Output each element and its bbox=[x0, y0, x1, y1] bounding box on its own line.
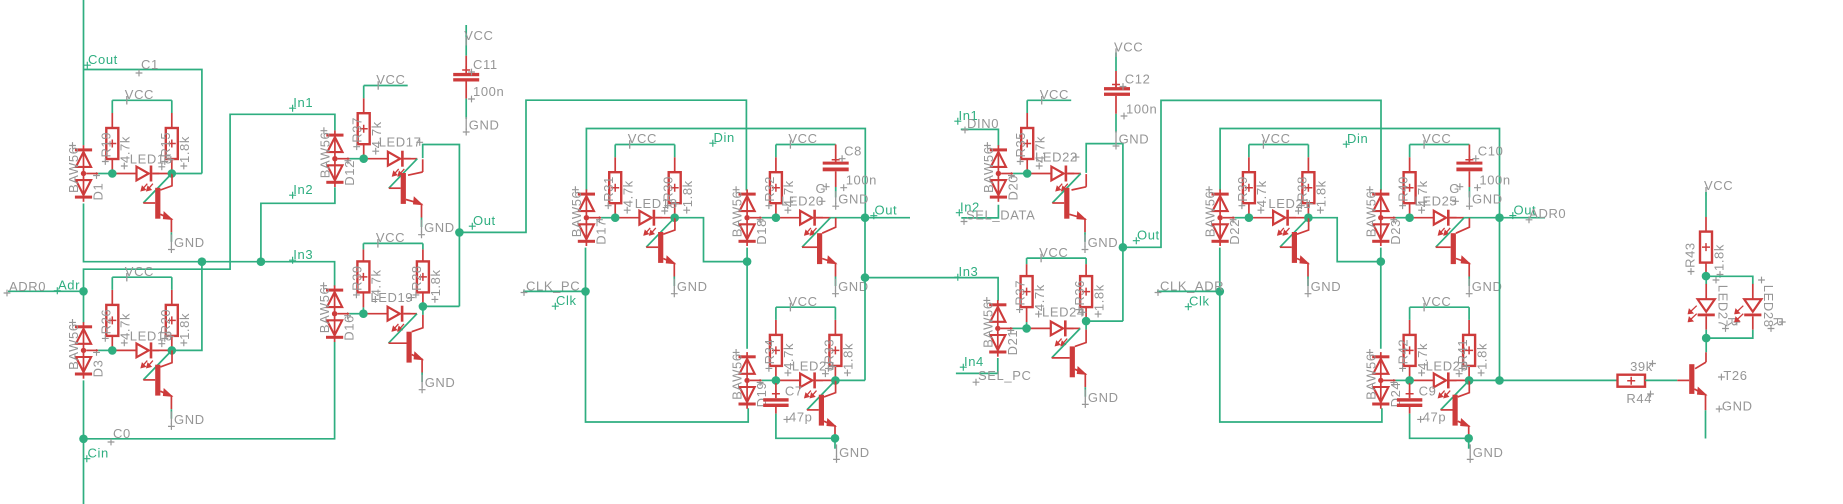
capacitor C8 100n bbox=[823, 145, 849, 188]
power VCC bbox=[1039, 245, 1068, 263]
wire bbox=[1085, 258, 1087, 264]
svg-text:GND: GND bbox=[174, 412, 205, 427]
wire G1 output bbox=[172, 173, 202, 175]
svg-text:C11: C11 bbox=[473, 57, 498, 72]
svg-text:1.8k: 1.8k bbox=[177, 136, 192, 163]
svg-text:D18: D18 bbox=[754, 219, 769, 245]
wire bbox=[1468, 277, 1470, 287]
svg-text:BAW56: BAW56 bbox=[569, 191, 584, 238]
wire bbox=[1705, 276, 1707, 284]
wire bbox=[1084, 387, 1086, 397]
power VCC bbox=[1422, 131, 1451, 149]
svg-text:C1: C1 bbox=[141, 57, 159, 72]
net label Clk bbox=[552, 293, 577, 310]
net label Cin bbox=[83, 446, 109, 463]
wire bbox=[1468, 307, 1470, 320]
pin bbox=[1248, 203, 1250, 218]
svg-text:100n: 100n bbox=[473, 84, 504, 99]
junction bbox=[108, 346, 117, 355]
svg-text:D20: D20 bbox=[1005, 175, 1020, 201]
power VCC bbox=[1261, 131, 1290, 149]
svg-text:1.8k: 1.8k bbox=[1712, 244, 1727, 271]
transistor T26 bbox=[1677, 352, 1706, 410]
wire collector bbox=[663, 218, 675, 235]
pin bbox=[1409, 203, 1411, 218]
junction bbox=[1082, 317, 1091, 326]
pin bbox=[111, 290, 113, 305]
wire collector bbox=[1075, 330, 1086, 347]
wire VCC rail bbox=[1410, 144, 1470, 146]
svg-text:D3: D3 bbox=[91, 360, 106, 378]
svg-text:GND: GND bbox=[1722, 398, 1753, 413]
wire VCC to C11 bbox=[465, 25, 467, 56]
resistor R40 4.7k bbox=[1404, 172, 1416, 203]
wire cap return bbox=[1410, 414, 1469, 439]
net label In4 bbox=[960, 354, 984, 371]
wire bbox=[835, 277, 837, 287]
dual diode D16 BAW56 bbox=[326, 285, 343, 342]
svg-text:LED24: LED24 bbox=[1042, 305, 1085, 320]
junction bbox=[168, 346, 177, 355]
resistor R39 4.7k bbox=[357, 261, 369, 292]
wire bbox=[422, 306, 424, 315]
svg-text:LED19: LED19 bbox=[370, 290, 413, 305]
wire rail bbox=[86, 173, 98, 175]
dual diode D21 BAW56 bbox=[989, 300, 1006, 357]
wire collector T26 bbox=[1705, 338, 1707, 352]
pin bbox=[775, 320, 777, 335]
wire rail bbox=[338, 158, 350, 160]
svg-text:C9: C9 bbox=[1419, 383, 1437, 398]
wire bbox=[831, 217, 866, 219]
wire G4 output bbox=[423, 305, 460, 307]
wire rail bbox=[98, 349, 112, 351]
svg-text:VCC: VCC bbox=[788, 131, 817, 146]
svg-text:R26: R26 bbox=[98, 309, 113, 335]
wire bbox=[404, 158, 418, 160]
wire bbox=[1307, 277, 1309, 287]
wire to R44 bbox=[1500, 379, 1618, 381]
pin bbox=[775, 203, 777, 218]
wire bbox=[1219, 248, 1221, 292]
svg-text:BAW56: BAW56 bbox=[1363, 191, 1378, 238]
wire bbox=[1468, 439, 1470, 449]
transistor bbox=[1052, 188, 1085, 233]
svg-text:D22: D22 bbox=[1227, 219, 1242, 245]
pin bbox=[1026, 159, 1028, 174]
wire Adr/In1 link bbox=[84, 114, 335, 291]
wire Out stub cluster5 bbox=[1500, 217, 1546, 219]
wire rail bbox=[1396, 217, 1410, 219]
pin bbox=[1468, 366, 1470, 381]
wire rail bbox=[750, 217, 762, 219]
pin bbox=[363, 144, 365, 159]
dual diode D19 BAW56 bbox=[739, 352, 756, 409]
pin bbox=[1085, 264, 1087, 276]
resistor bbox=[1700, 232, 1712, 263]
junction bbox=[1304, 213, 1313, 222]
svg-text:1.8k: 1.8k bbox=[680, 180, 695, 207]
wire bbox=[171, 100, 173, 113]
junction bbox=[1023, 169, 1032, 178]
wire collector riser bbox=[1085, 174, 1087, 187]
LED LED17 bbox=[364, 151, 411, 176]
wire feedback Out to D22 top bbox=[1220, 129, 1499, 218]
wire collector bbox=[822, 218, 836, 234]
svg-text:SEL_DATA: SEL_DATA bbox=[966, 208, 1035, 223]
wire rail bbox=[1396, 379, 1410, 381]
wire bbox=[775, 307, 777, 320]
wire collector bbox=[1297, 218, 1309, 235]
svg-text:VCC: VCC bbox=[1039, 245, 1068, 260]
svg-text:R42: R42 bbox=[1396, 339, 1411, 365]
wire G5 output bbox=[675, 218, 747, 262]
power VCC bbox=[788, 294, 817, 312]
pin bbox=[111, 336, 113, 351]
wire collector bbox=[160, 350, 172, 367]
power VCC bbox=[376, 230, 405, 248]
junction bbox=[359, 309, 368, 318]
wire base link bbox=[802, 218, 831, 248]
junction bbox=[108, 169, 117, 178]
wire bbox=[1645, 379, 1677, 381]
svg-text:GND: GND bbox=[838, 192, 869, 207]
junction bbox=[257, 257, 266, 266]
junction bbox=[359, 154, 368, 163]
junction bbox=[1702, 334, 1711, 343]
svg-text:BAW56: BAW56 bbox=[66, 146, 81, 193]
wire bbox=[363, 86, 365, 99]
wire VCC rail bbox=[615, 144, 675, 146]
junction bbox=[772, 376, 781, 385]
junction bbox=[861, 273, 870, 282]
LED LED22 bbox=[1027, 166, 1074, 191]
wire rail bbox=[1013, 327, 1027, 329]
svg-text:VCC: VCC bbox=[1040, 87, 1069, 102]
wire cluster3 out column bbox=[864, 218, 866, 381]
wire bbox=[1026, 100, 1028, 113]
junction bbox=[743, 257, 752, 266]
wire base link bbox=[389, 314, 418, 344]
wire net Cout branch bbox=[84, 70, 202, 174]
pin bbox=[422, 292, 424, 306]
svg-text:C7: C7 bbox=[785, 383, 803, 398]
wire bbox=[422, 243, 424, 249]
svg-text:GND: GND bbox=[839, 445, 870, 460]
wire net Cout top bbox=[83, 0, 85, 145]
svg-text:VCC: VCC bbox=[125, 264, 154, 279]
wire feedback Out to D17 top bbox=[586, 129, 865, 218]
ground bbox=[832, 279, 869, 298]
wire rail bbox=[1235, 217, 1249, 219]
wire rail bbox=[1001, 327, 1013, 329]
wire rail bbox=[762, 379, 776, 381]
junction bbox=[1245, 213, 1254, 222]
wire Out to Din bbox=[459, 100, 746, 232]
svg-text:R34: R34 bbox=[762, 339, 777, 365]
transistor bbox=[1441, 395, 1470, 440]
svg-text:R35: R35 bbox=[1013, 132, 1028, 158]
wire collector riser bbox=[422, 159, 424, 172]
svg-text:R32: R32 bbox=[762, 176, 777, 202]
wire G7 output bbox=[835, 379, 865, 381]
LED LED16 bbox=[112, 342, 159, 367]
net label Din bbox=[1343, 131, 1369, 148]
svg-text:CLK_ADR: CLK_ADR bbox=[1160, 279, 1224, 294]
svg-text:In4: In4 bbox=[964, 354, 984, 369]
ground bbox=[1466, 191, 1503, 210]
wire rail bbox=[750, 379, 762, 381]
wire bbox=[1289, 217, 1309, 219]
svg-text:Cin: Cin bbox=[88, 446, 109, 461]
svg-text:BAW56: BAW56 bbox=[730, 191, 745, 238]
junction bbox=[1495, 213, 1504, 222]
svg-text:Out: Out bbox=[875, 203, 898, 218]
svg-text:C8: C8 bbox=[844, 143, 862, 158]
svg-text:D24: D24 bbox=[1388, 382, 1403, 408]
svg-text:R37: R37 bbox=[350, 117, 365, 143]
dual diode D20 BAW56 bbox=[990, 145, 1007, 202]
wire In3 to cluster4 bbox=[865, 278, 998, 301]
pin bbox=[834, 320, 836, 335]
wire bbox=[1248, 145, 1250, 158]
svg-text:GND: GND bbox=[1088, 390, 1119, 405]
resistor R15 1.8k bbox=[166, 128, 178, 159]
wire C0/Cin bbox=[83, 380, 85, 504]
svg-text:D23: D23 bbox=[1388, 219, 1403, 245]
svg-text:4.7k: 4.7k bbox=[1254, 180, 1269, 207]
wire rail bbox=[337, 313, 349, 315]
pin bbox=[1026, 307, 1028, 322]
svg-text:R40: R40 bbox=[1396, 176, 1411, 202]
svg-text:C10: C10 bbox=[1478, 143, 1504, 158]
wire emitter bbox=[1705, 410, 1707, 438]
svg-text:ADR0: ADR0 bbox=[9, 279, 46, 294]
svg-text:C0: C0 bbox=[113, 426, 131, 441]
wire Out to cluster5 Din bbox=[1123, 100, 1381, 247]
dual diode D12 BAW56 bbox=[326, 130, 343, 187]
wire rail bbox=[1013, 173, 1027, 175]
wire bbox=[1026, 258, 1028, 264]
svg-text:R31: R31 bbox=[601, 176, 616, 202]
ground bbox=[418, 220, 455, 239]
svg-text:BAW56: BAW56 bbox=[730, 353, 745, 400]
transistor bbox=[1280, 232, 1309, 277]
wire bbox=[834, 307, 836, 320]
junction bbox=[1464, 434, 1473, 443]
ground bbox=[168, 411, 205, 430]
junction bbox=[198, 257, 207, 266]
wire CLK_ADR lower bbox=[1220, 291, 1382, 422]
pin bbox=[775, 366, 777, 381]
wire bbox=[1067, 327, 1081, 329]
junction bbox=[831, 434, 840, 443]
svg-text:Clk: Clk bbox=[556, 293, 577, 308]
wire rail bbox=[589, 217, 601, 219]
pin bbox=[1409, 320, 1411, 335]
junction bbox=[419, 302, 428, 311]
dual diode D17 BAW56 bbox=[578, 189, 595, 246]
wire G12 output bbox=[1469, 379, 1499, 381]
svg-text:BAW56: BAW56 bbox=[980, 301, 995, 348]
power VCC bbox=[125, 264, 154, 282]
svg-text:LED17: LED17 bbox=[379, 135, 422, 150]
wire bbox=[1409, 307, 1411, 320]
pin bbox=[1026, 264, 1028, 276]
power VCC bbox=[1704, 178, 1733, 196]
pin bbox=[674, 157, 676, 172]
svg-text:1.8k: 1.8k bbox=[841, 343, 856, 370]
svg-text:GND: GND bbox=[677, 279, 708, 294]
wire bbox=[83, 291, 85, 322]
wire base link bbox=[1436, 218, 1465, 248]
wire bbox=[1706, 330, 1753, 338]
wire collector bbox=[160, 174, 172, 191]
pin bbox=[1307, 157, 1309, 172]
svg-text:GND: GND bbox=[425, 375, 456, 390]
svg-text:In1: In1 bbox=[293, 95, 313, 110]
ground bbox=[1082, 235, 1119, 254]
junction bbox=[1405, 376, 1414, 385]
pin bbox=[1705, 217, 1707, 232]
wire collector bbox=[408, 172, 423, 175]
ground bbox=[1113, 131, 1150, 150]
svg-text:VCC: VCC bbox=[1114, 39, 1143, 54]
junction bbox=[1022, 324, 1031, 333]
junction bbox=[1465, 376, 1474, 385]
junction bbox=[831, 376, 840, 385]
pin bbox=[1409, 157, 1411, 172]
dual diode D3 BAW56 bbox=[75, 322, 92, 379]
junction bbox=[1405, 213, 1414, 222]
svg-text:Cout: Cout bbox=[88, 52, 118, 67]
wire bbox=[673, 277, 675, 287]
wire rail bbox=[1384, 379, 1396, 381]
svg-text:BAW56: BAW56 bbox=[66, 323, 81, 370]
wire rail bbox=[601, 217, 615, 219]
svg-text:LED23: LED23 bbox=[792, 359, 835, 374]
LED LED26 bbox=[1410, 372, 1457, 397]
wire VCC rail bbox=[112, 276, 172, 278]
junction bbox=[1702, 272, 1711, 281]
LED LED19 bbox=[363, 306, 410, 331]
svg-text:GND: GND bbox=[1472, 279, 1503, 294]
svg-text:BAW56: BAW56 bbox=[981, 146, 996, 193]
resistor R37 4.7k bbox=[1021, 276, 1033, 307]
ground bbox=[1467, 444, 1504, 463]
svg-text:1.8k: 1.8k bbox=[1091, 284, 1106, 311]
svg-text:G: G bbox=[816, 181, 827, 196]
ground bbox=[463, 117, 500, 136]
pin bbox=[1085, 307, 1087, 321]
power VCC bbox=[628, 131, 657, 149]
wire bbox=[1450, 217, 1465, 219]
wire cap return bbox=[776, 414, 835, 439]
ground bbox=[1305, 279, 1342, 298]
pin bbox=[422, 249, 424, 261]
power VCC bbox=[125, 87, 154, 105]
wire rail bbox=[1001, 173, 1013, 175]
wire rail bbox=[1223, 217, 1235, 219]
wire base link bbox=[1280, 218, 1309, 248]
pin bbox=[834, 366, 836, 381]
junction bbox=[1377, 257, 1386, 266]
wire bbox=[403, 313, 417, 315]
wire CLK_ADR bbox=[1157, 290, 1220, 292]
resistor R31 4.7k bbox=[609, 172, 621, 203]
svg-text:1.8k: 1.8k bbox=[177, 313, 192, 340]
svg-text:VCC: VCC bbox=[376, 72, 405, 87]
junction bbox=[581, 287, 590, 296]
ground bbox=[419, 375, 456, 394]
wire VCC rail bbox=[363, 242, 423, 244]
wire VCC to C12 bbox=[1115, 53, 1117, 72]
wire collector bbox=[1456, 218, 1470, 234]
wire rail bbox=[1384, 217, 1396, 219]
svg-text:VCC: VCC bbox=[464, 28, 493, 43]
pin bbox=[614, 203, 616, 218]
net label Din bbox=[709, 130, 735, 147]
svg-text:D1: D1 bbox=[91, 183, 106, 201]
pin bbox=[171, 159, 173, 174]
wire bbox=[1464, 217, 1499, 219]
svg-text:VCC: VCC bbox=[1422, 131, 1451, 146]
wire bbox=[835, 187, 837, 197]
LED LED25 bbox=[1410, 210, 1457, 235]
svg-text:BAW56: BAW56 bbox=[1363, 353, 1378, 400]
transistor bbox=[646, 232, 675, 277]
wire bbox=[111, 100, 113, 113]
dual diode D24 BAW56 bbox=[1372, 352, 1389, 409]
LED LED24 bbox=[1027, 320, 1074, 345]
wire bbox=[421, 218, 423, 228]
resistor R19 4.7k bbox=[106, 128, 118, 159]
wire bbox=[1409, 145, 1411, 158]
wire VCC rail bbox=[1249, 144, 1309, 146]
power VCC bbox=[1422, 294, 1451, 312]
transistor bbox=[1436, 233, 1470, 276]
svg-text:1.8k: 1.8k bbox=[1474, 343, 1489, 370]
pin bbox=[171, 336, 173, 351]
resistor R41 1.8k bbox=[1463, 335, 1475, 366]
svg-text:LED22: LED22 bbox=[1035, 149, 1078, 164]
wire base link bbox=[1052, 174, 1081, 204]
wire bbox=[614, 145, 616, 158]
resistor R34 4.7k bbox=[770, 335, 782, 366]
transistor bbox=[389, 173, 422, 218]
junction bbox=[1495, 376, 1504, 385]
wire VCC rail bbox=[776, 306, 836, 308]
wire VCC rail bbox=[1027, 99, 1071, 101]
svg-text:100n: 100n bbox=[846, 173, 877, 188]
wire rail bbox=[86, 349, 98, 351]
transistor bbox=[807, 395, 836, 440]
svg-text:47p: 47p bbox=[789, 410, 813, 425]
capacitor C7 47p bbox=[763, 383, 788, 414]
wire base link bbox=[646, 218, 675, 248]
svg-text:C12: C12 bbox=[1125, 72, 1151, 87]
svg-text:VCC: VCC bbox=[125, 87, 154, 102]
junction bbox=[611, 213, 620, 222]
svg-text:100n: 100n bbox=[1479, 173, 1510, 188]
pin bbox=[674, 203, 676, 218]
resistor R30 1.8k bbox=[669, 172, 681, 203]
wire bbox=[362, 243, 364, 249]
net label Adr bbox=[54, 278, 80, 295]
junction bbox=[1216, 287, 1225, 296]
net label In3 bbox=[289, 247, 313, 264]
wire bbox=[1085, 321, 1087, 330]
